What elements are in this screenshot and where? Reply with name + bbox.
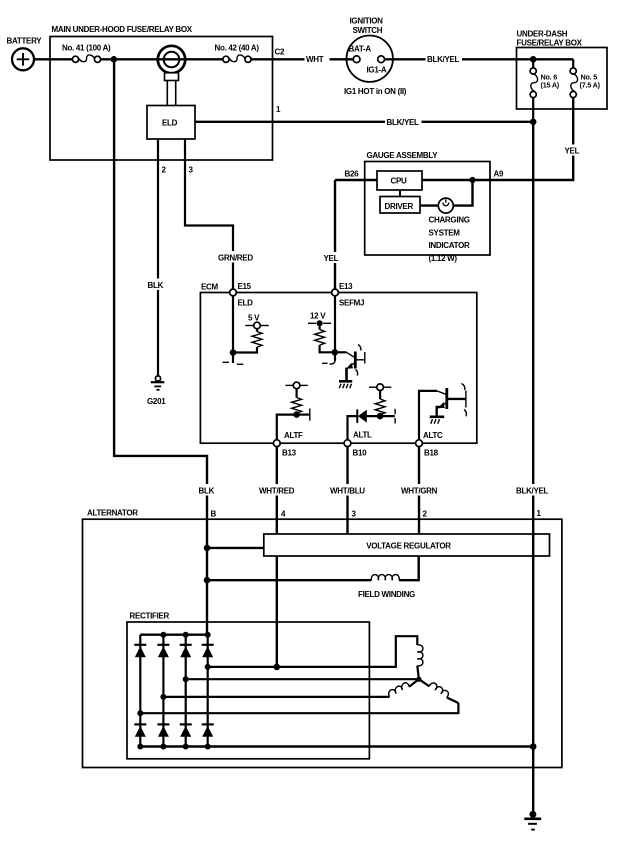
wire indicator branch	[453, 180, 472, 206]
svg-text:BLK/YEL: BLK/YEL	[427, 55, 460, 64]
ground internal Q emitter	[339, 368, 352, 389]
wire CPU to A9	[422, 179, 490, 181]
gauge assembly box	[345, 151, 504, 255]
svg-text:(7.5 A): (7.5 A)	[580, 81, 601, 90]
rectifier box	[127, 612, 369, 759]
wire B10 to alternator 3	[346, 447, 348, 534]
svg-text:SYSTEM: SYSTEM	[429, 228, 461, 237]
svg-text:GAUGE ASSEMBLY: GAUGE ASSEMBLY	[367, 151, 439, 160]
terminal B18	[416, 440, 439, 458]
label BLK on battery branch	[197, 484, 221, 496]
wire ALTL to B10	[348, 416, 358, 440]
diode D4 top	[202, 645, 214, 657]
charging system indicator bulb	[429, 198, 471, 263]
svg-text:UNDER-DASH: UNDER-DASH	[517, 30, 568, 39]
wire fuse5 down to A9 line	[490, 98, 573, 180]
node E15 internal	[230, 349, 237, 356]
svg-text:BLK/YEL: BLK/YEL	[516, 487, 549, 496]
under-dash fuse/relay box	[517, 30, 608, 110]
ELD current sensor ring	[158, 46, 185, 106]
svg-text:B13: B13	[282, 449, 297, 458]
svg-text:RECTIFIER: RECTIFIER	[130, 612, 170, 621]
junction node indicator	[469, 177, 475, 183]
rectifier leg 2	[162, 635, 164, 747]
wire fuse42 to ignition switch BAT-A	[251, 58, 353, 60]
CPU box	[377, 171, 422, 190]
wire 1 through regulator	[532, 530, 534, 560]
resistor ALTF	[292, 389, 302, 415]
svg-text:E13: E13	[339, 282, 353, 291]
label YEL on wire	[563, 145, 584, 156]
svg-text:WHT/GRN: WHT/GRN	[401, 487, 438, 496]
svg-text:YEL: YEL	[565, 147, 580, 156]
label WHT on wire	[305, 54, 330, 65]
svg-text:(1.12 W): (1.12 W)	[429, 254, 458, 263]
stator phase C wire	[163, 696, 389, 698]
stator coil C	[389, 683, 409, 697]
stator neutral wire B	[186, 678, 417, 680]
diode D2 top	[157, 645, 169, 657]
junction node at battery branch	[111, 56, 118, 63]
label GRN/RED on pin3 wire	[217, 251, 254, 263]
wire B to field winding	[207, 579, 372, 581]
svg-text:12 V: 12 V	[310, 312, 326, 321]
alternator box	[83, 509, 562, 768]
svg-text:B10: B10	[353, 449, 368, 458]
svg-text:A9: A9	[494, 170, 504, 179]
transistor internal Q (SEFMJ driver)	[335, 345, 365, 376]
svg-text:DRIVER: DRIVER	[385, 202, 414, 211]
svg-text:5 V: 5 V	[248, 314, 260, 323]
battery	[7, 37, 43, 71]
wire coil C to center	[409, 679, 419, 687]
svg-text:B26: B26	[345, 170, 360, 179]
svg-text:CPU: CPU	[391, 177, 408, 186]
wire fuse41 to fuse42 through ELD sensor	[101, 58, 223, 60]
svg-text:WHT: WHT	[306, 55, 324, 64]
rectifier top bus	[140, 634, 207, 636]
fuse No.6 (15 A)	[530, 59, 560, 122]
wire E13 riser YEL	[334, 180, 336, 293]
wire E15 internal	[232, 296, 234, 363]
fuse No.5 (7.5 A)	[570, 59, 601, 97]
junction node wire1	[530, 119, 537, 126]
svg-text:BAT-A: BAT-A	[349, 45, 372, 54]
node ALTL	[377, 413, 384, 420]
wire ALTL row	[367, 415, 395, 417]
svg-text:BLK: BLK	[199, 487, 215, 496]
svg-text:SWITCH: SWITCH	[353, 26, 383, 35]
stator coil A	[417, 645, 423, 666]
label WHT/BLU	[329, 484, 368, 496]
wire CPU to DRIVER	[399, 190, 401, 197]
diode D3 top	[180, 645, 192, 657]
svg-text:YEL: YEL	[324, 254, 339, 263]
main under-hood fuse/relay box	[50, 25, 273, 160]
node B to field	[204, 577, 211, 584]
wire 4 below regulator	[276, 556, 278, 667]
rectifier leg 3	[185, 635, 187, 747]
label WHT/RED	[258, 484, 297, 496]
wire battery branch down	[114, 59, 207, 634]
ground G201	[147, 376, 166, 406]
svg-text:FIELD WINDING: FIELD WINDING	[358, 590, 415, 599]
terminal E13	[332, 282, 365, 308]
wire B13 to alternator 4	[276, 447, 278, 534]
svg-text:C2: C2	[275, 48, 285, 57]
svg-text:ELD: ELD	[238, 299, 254, 308]
ignition switch	[344, 17, 407, 97]
transistor ALTC	[419, 384, 466, 440]
wire center to coil D	[419, 679, 429, 686]
12V supply terminal	[308, 312, 331, 327]
stator phase A wire	[208, 636, 418, 667]
continuation hook E13	[330, 361, 336, 364]
terminal B13	[273, 440, 296, 458]
node E13 internal	[332, 349, 339, 356]
svg-text:ALTF: ALTF	[284, 431, 303, 440]
wire B to regulator	[207, 547, 264, 549]
fuse No.42 (40 A)	[215, 44, 260, 63]
ECM box	[200, 283, 476, 444]
svg-text:IGNITION: IGNITION	[350, 17, 384, 26]
label WHT/GRN	[400, 484, 440, 496]
resistor 5V pull-up	[233, 329, 262, 353]
svg-text:MAIN UNDER-HOOD FUSE/RELAY BOX: MAIN UNDER-HOOD FUSE/RELAY BOX	[52, 25, 193, 34]
svg-text:ALTERNATOR: ALTERNATOR	[87, 509, 138, 518]
ALTF pull-up terminal	[286, 382, 308, 389]
diode D8 bottom	[202, 724, 214, 736]
ground alternator	[524, 811, 541, 830]
terminal B10	[344, 440, 367, 458]
rectifier leg 4	[207, 635, 209, 747]
stub ALTF right	[297, 414, 310, 416]
svg-text:No. 42 (40 A): No. 42 (40 A)	[215, 44, 260, 53]
svg-text:ALTC: ALTC	[423, 431, 443, 440]
diode D6 bottom	[157, 724, 169, 736]
label BLK/YEL on wire	[426, 54, 463, 65]
ground ALTC emitter	[430, 407, 445, 424]
svg-text:CHARGING: CHARGING	[429, 216, 470, 225]
svg-text:E15: E15	[238, 282, 252, 291]
svg-text:ALTL: ALTL	[353, 431, 372, 440]
svg-text:INDICATOR: INDICATOR	[429, 241, 471, 250]
wire ELD pin 1 to under-dash junction	[195, 121, 533, 123]
main vertical BLK/YEL wire down to ground	[532, 122, 534, 815]
label BLK/YEL on pin1 wire	[385, 116, 422, 127]
wire coil D tail	[447, 698, 459, 704]
wire coil A to center	[417, 666, 419, 680]
wire E13 internal	[334, 296, 336, 361]
wire ELD pin 3 to ECM E15	[185, 139, 233, 293]
svg-text:B: B	[211, 510, 217, 519]
svg-text:FUSE/RELAY BOX: FUSE/RELAY BOX	[517, 39, 583, 48]
svg-text:SEFMJ: SEFMJ	[339, 299, 364, 308]
svg-text:IG1-A: IG1-A	[367, 66, 387, 75]
svg-text:G201: G201	[147, 397, 166, 406]
resistor 12V pull-up	[315, 326, 335, 352]
wire B26 to CPU	[335, 179, 377, 181]
svg-text:VOLTAGE REGULATOR: VOLTAGE REGULATOR	[366, 541, 451, 550]
svg-text:No. 41 (100 A): No. 41 (100 A)	[62, 44, 111, 53]
fuse No.41 (100 A)	[62, 44, 111, 63]
wire IG1-A to under-dash box	[385, 58, 574, 60]
junction node fuse6	[530, 56, 537, 63]
wire ELD pin 2 down to G201	[157, 139, 159, 376]
5V supply terminal	[245, 314, 268, 329]
rectifier leg 1	[139, 635, 141, 747]
svg-text:BLK: BLK	[148, 281, 164, 290]
diode D7 bottom	[180, 724, 192, 736]
svg-text:BLK/YEL: BLK/YEL	[387, 118, 420, 127]
stator Y center	[416, 677, 421, 682]
field winding coil	[358, 575, 415, 599]
diode D5 bottom	[134, 724, 146, 736]
terminal E15	[230, 282, 254, 308]
stator phase D wire	[140, 703, 458, 713]
svg-text:ELD: ELD	[162, 119, 178, 128]
svg-text:WHT/RED: WHT/RED	[259, 487, 295, 496]
label BLK on pin2 wire	[146, 279, 170, 291]
rectifier bottom bus	[140, 745, 533, 747]
wire B18 to alternator 2	[418, 447, 420, 534]
wire field winding to regulator	[399, 556, 419, 580]
diode D1 top	[134, 645, 146, 657]
svg-text:WHT/BLU: WHT/BLU	[330, 487, 365, 496]
continuation dashes E15	[223, 361, 230, 363]
label BLK/YEL on wire 1	[515, 484, 552, 496]
svg-text:BATTERY: BATTERY	[7, 37, 43, 46]
wire battery to fuse 41	[34, 58, 73, 60]
wire DRIVER to indicator	[420, 204, 438, 206]
stator coil D	[429, 683, 448, 698]
voltage regulator box	[264, 534, 550, 556]
svg-text:B18: B18	[424, 449, 439, 458]
svg-text:IG1 HOT in ON (II): IG1 HOT in ON (II)	[344, 87, 407, 96]
ALTL pull-up terminal	[369, 384, 391, 391]
svg-text:ECM: ECM	[201, 283, 219, 292]
label YEL on riser	[322, 252, 343, 263]
svg-text:GRN/RED: GRN/RED	[218, 254, 253, 263]
bottom bus nodes	[137, 744, 143, 750]
resistor ALTL	[375, 391, 385, 417]
node B to regulator	[204, 545, 211, 552]
node ALTF	[293, 411, 300, 418]
diode ALTL	[357, 409, 367, 423]
top bus nodes	[160, 632, 166, 638]
DRIVER box	[380, 197, 420, 214]
ELD unit box	[147, 106, 195, 140]
wire ALTF to B13	[277, 415, 297, 440]
svg-text:(15 A): (15 A)	[541, 81, 560, 90]
